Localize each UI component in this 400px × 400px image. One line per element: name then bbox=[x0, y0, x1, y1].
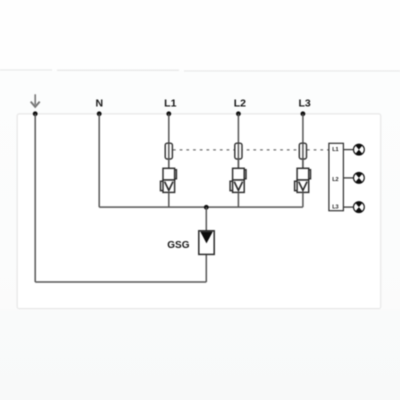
wire N vertical bbox=[98, 114, 100, 207]
wire lamp stub 1 bbox=[343, 149, 353, 151]
wire equipotential bus bbox=[99, 206, 303, 208]
wire L1 fuse to arrester bbox=[168, 159, 170, 168]
faint divider line bbox=[0, 70, 400, 71]
indicator lamp H3 bbox=[354, 202, 365, 213]
wire junction to GSG bbox=[205, 207, 207, 231]
fuse F1 bbox=[165, 143, 172, 159]
node N bbox=[97, 111, 102, 116]
wire L3 vertical bbox=[302, 114, 304, 169]
wire MOV2 to bus bbox=[237, 192, 239, 207]
surge arrester MOV1 (plug-in varistor) bbox=[161, 168, 177, 192]
wire MOV1 to bus bbox=[168, 192, 170, 207]
wire MOV3 to bus bbox=[302, 192, 304, 207]
svg-text:GSG: GSG bbox=[167, 240, 189, 251]
indicator lamp H2 bbox=[354, 173, 365, 184]
wire lamp stub 3 bbox=[343, 206, 353, 208]
fuse F2 bbox=[235, 143, 242, 159]
faint card frame bbox=[17, 114, 381, 309]
indicator lamp H1 bbox=[354, 144, 365, 155]
surge arrester MOV3 (plug-in varistor) bbox=[295, 168, 311, 192]
svg-text:N: N bbox=[96, 97, 104, 109]
spark gap GSG bbox=[199, 231, 214, 255]
wire L1 vertical bbox=[168, 114, 170, 169]
fuse F3 bbox=[299, 143, 306, 159]
wire lamp stub 2 bbox=[343, 177, 353, 179]
svg-text:L1: L1 bbox=[332, 147, 338, 153]
wire PE vertical bbox=[34, 114, 36, 282]
svg-text:L2: L2 bbox=[332, 177, 338, 183]
node L3 bbox=[301, 111, 306, 116]
node PE bbox=[33, 111, 38, 116]
monitoring unit box bbox=[329, 143, 344, 210]
surge arrester MOV2 (plug-in varistor) bbox=[230, 168, 246, 192]
wire L2 vertical bbox=[237, 114, 239, 169]
svg-text:L3: L3 bbox=[298, 97, 310, 109]
svg-text:L2: L2 bbox=[234, 97, 246, 109]
node L1 bbox=[166, 111, 171, 116]
wire bottom return bbox=[35, 281, 206, 283]
svg-text:L3: L3 bbox=[332, 205, 338, 211]
svg-text:L1: L1 bbox=[164, 97, 176, 109]
earth arrow (PE) bbox=[31, 94, 40, 107]
dashed status link line bbox=[173, 149, 329, 151]
wire L3 fuse to arrester bbox=[302, 159, 304, 168]
wire GSG to bottom bbox=[205, 254, 207, 282]
junction node bbox=[204, 205, 209, 210]
node L2 bbox=[236, 111, 241, 116]
wire L2 fuse to arrester bbox=[237, 159, 239, 168]
